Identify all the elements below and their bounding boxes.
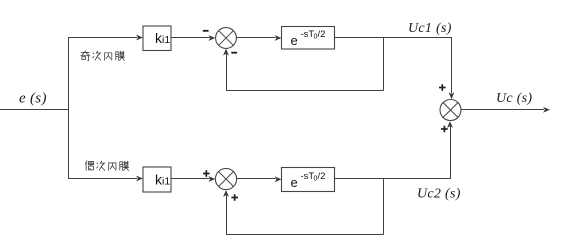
svg-text:-sT: -sT — [301, 171, 315, 182]
wire feedback1 up into sum1 — [223, 49, 229, 91]
wire sum1 to delay block — [237, 35, 282, 41]
wire sum2 to delay block 2 — [237, 176, 282, 182]
label 奇次内膜 (odd internal model) — [81, 51, 125, 61]
wire feedback2 bottom horizontal — [226, 234, 384, 236]
sign plus (sum3 bottom input) — [441, 126, 448, 133]
svg-text:i1: i1 — [162, 34, 170, 46]
svg-text:Uc (s): Uc (s) — [496, 91, 532, 106]
svg-text:-sT: -sT — [301, 29, 315, 40]
wire ki1 to sum1 — [171, 35, 215, 41]
wire delay1 output to right corner — [335, 37, 453, 39]
wire feedback1 tap down — [383, 38, 385, 91]
svg-text:e: e — [291, 175, 298, 190]
wire bottom path to ki1b — [68, 176, 143, 182]
wire ki1b to sum2 — [171, 176, 215, 182]
summing junction sum2 — [215, 168, 236, 189]
sign minus (sum1 feedback) — [231, 52, 237, 54]
block ki1 (bottom) — [143, 167, 171, 192]
block delay e^-sT0/2 (top) — [282, 27, 335, 50]
sign plus (sum3 top input) — [439, 84, 446, 91]
wire feedback2 up into sum2 — [223, 190, 229, 235]
svg-text:/2: /2 — [318, 29, 326, 40]
sign plus (sum2 input) — [203, 170, 210, 177]
block ki1 (top) — [143, 26, 171, 51]
block delay e^-sT0/2 (bottom) — [282, 168, 335, 192]
svg-text:e (s): e (s) — [19, 91, 47, 107]
summing junction sum3 (output) — [440, 100, 461, 121]
sign minus (sum1 input) — [203, 30, 209, 32]
wire feedback1 bottom horizontal — [226, 90, 384, 92]
wire feedback2 tap down — [383, 179, 385, 235]
wire branch vertical — [68, 37, 70, 179]
wire input e(s) horizontal — [0, 109, 69, 111]
wire output Uc(s) — [461, 107, 550, 113]
sign plus (sum2 feedback) — [231, 194, 238, 201]
wire Uc2 corner up to sum3 — [447, 121, 453, 179]
svg-text:e: e — [291, 33, 298, 48]
svg-text:/2: /2 — [318, 171, 326, 182]
wire Uc1 corner down to sum3 — [449, 38, 455, 100]
svg-text:Uc1 (s): Uc1 (s) — [408, 21, 452, 36]
label 偶次内膜 (even internal model) — [85, 161, 128, 171]
summing junction sum1 — [216, 28, 237, 49]
svg-text:i1: i1 — [162, 176, 170, 188]
wire top path to ki1 — [68, 35, 143, 41]
wire delay2 output to right corner — [335, 178, 452, 180]
svg-text:Uc2 (s): Uc2 (s) — [417, 187, 461, 202]
